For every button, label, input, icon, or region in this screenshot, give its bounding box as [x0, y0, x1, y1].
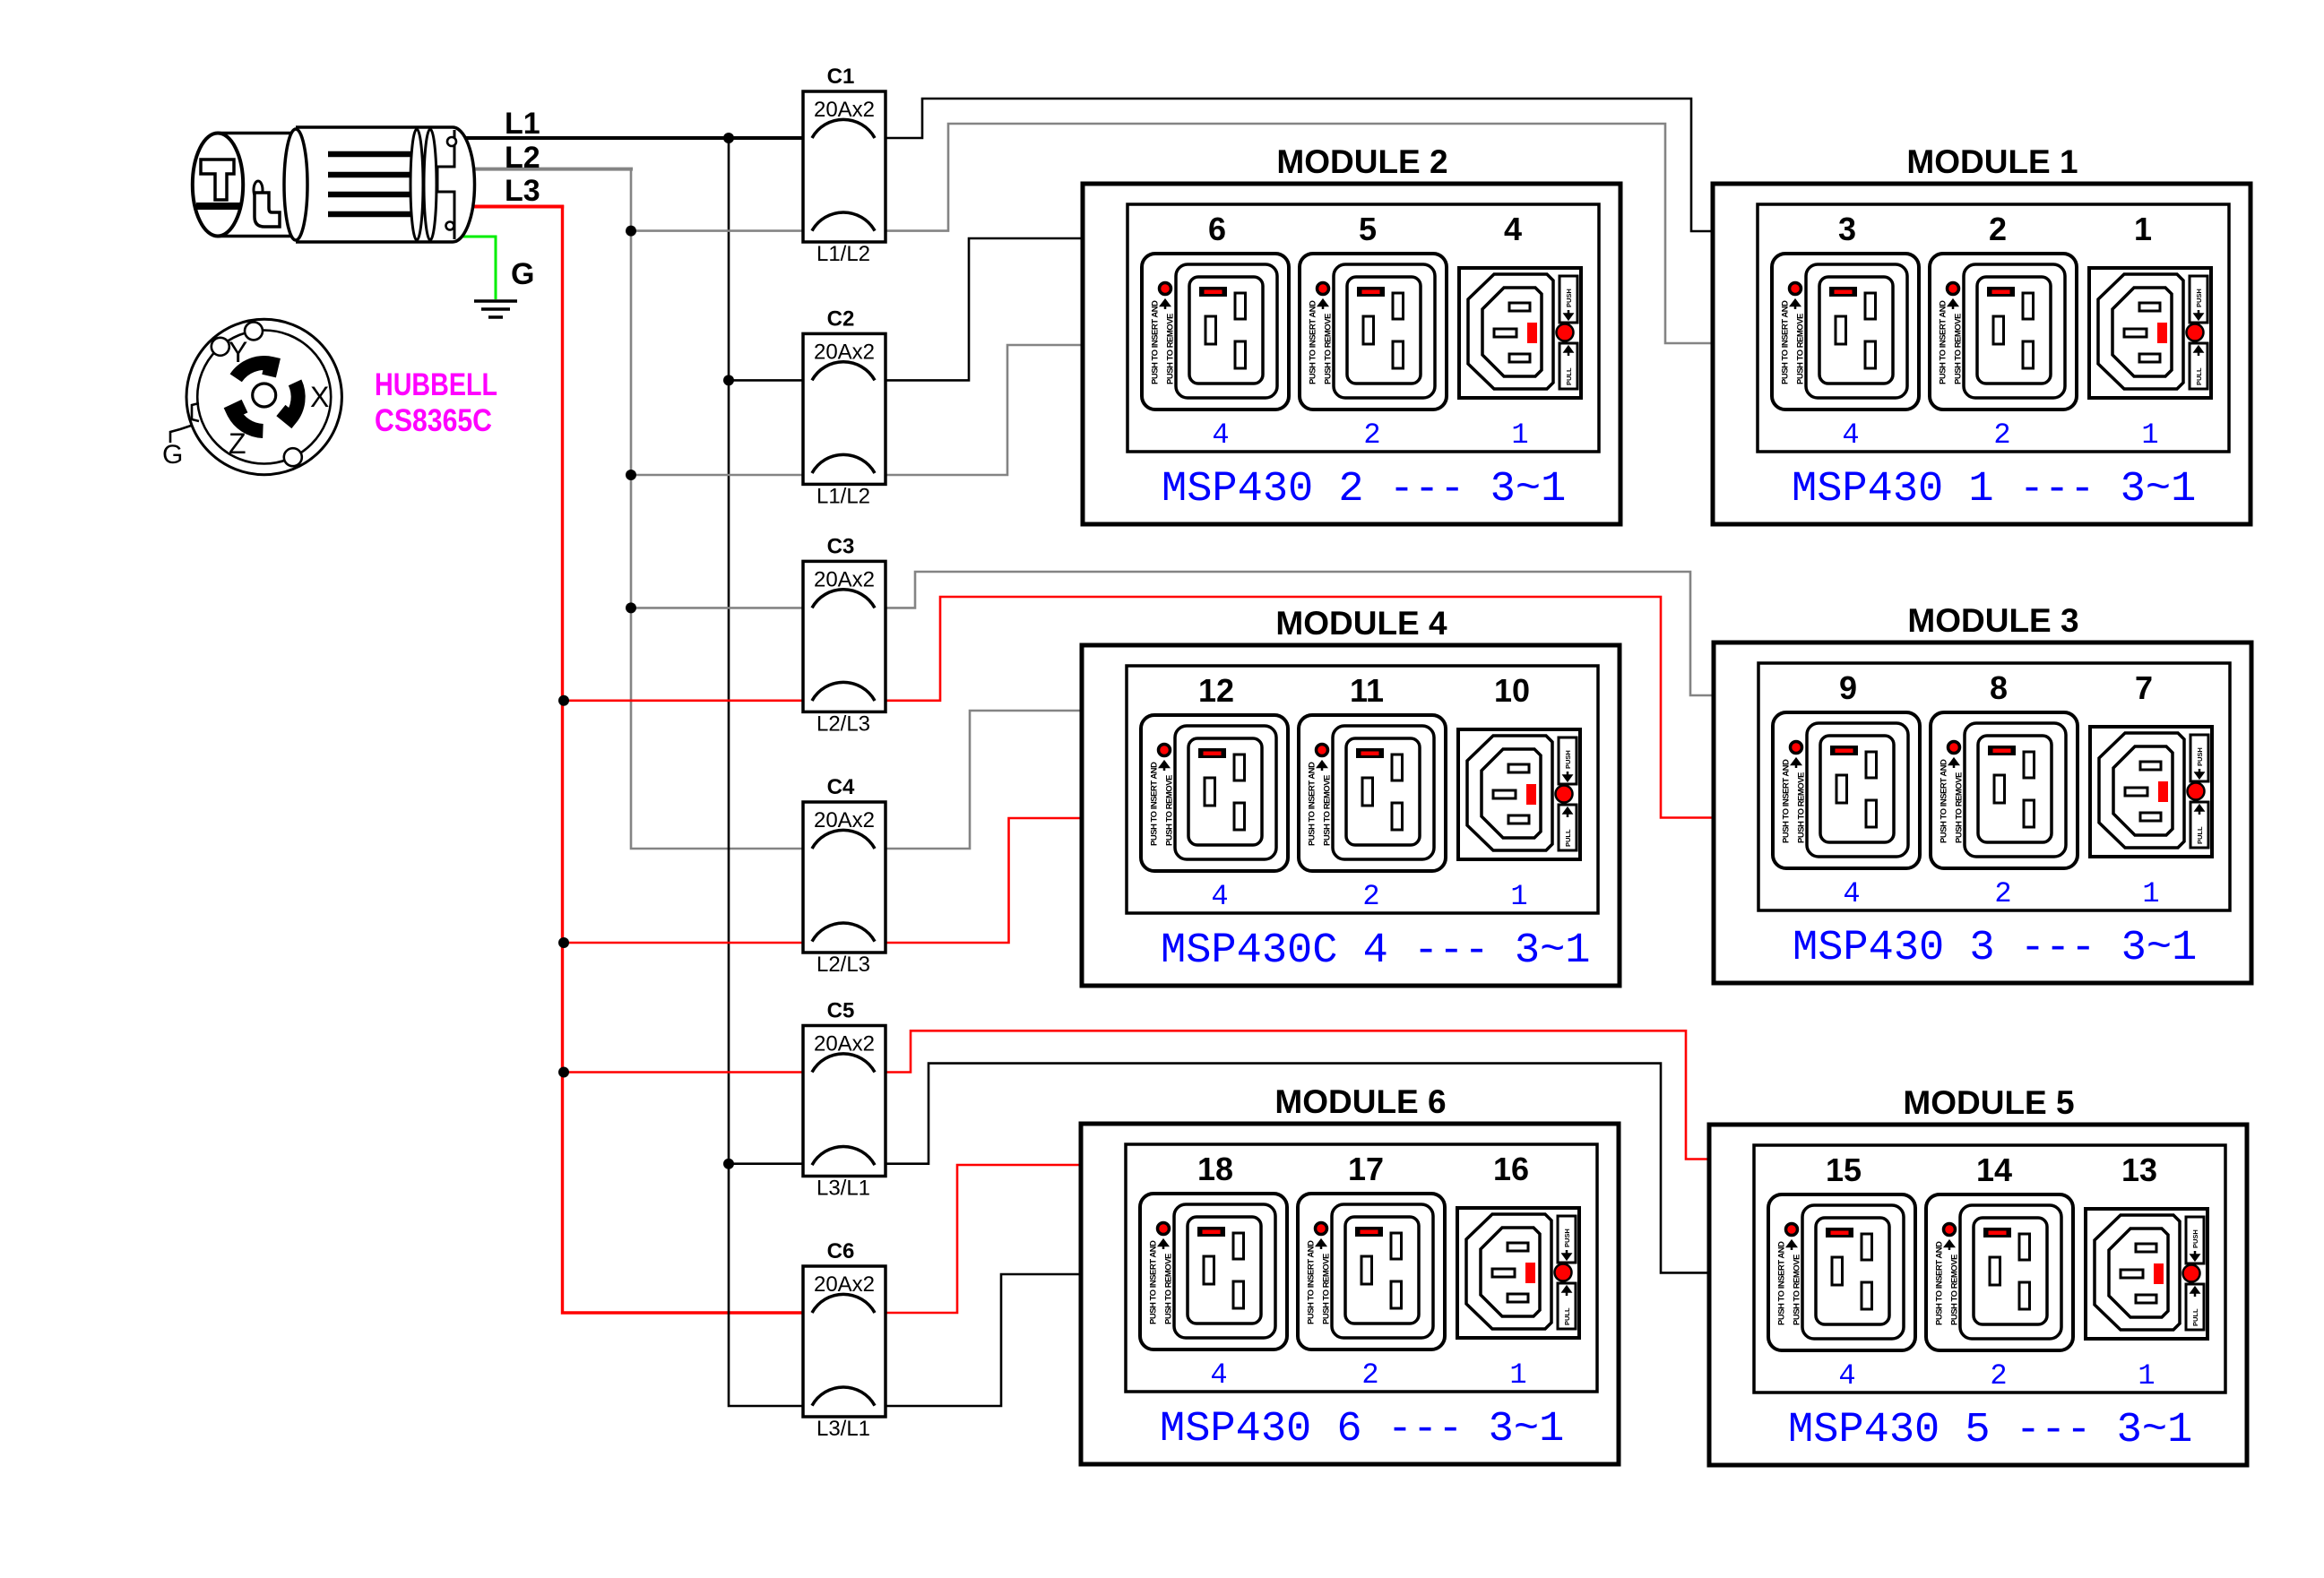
svg-text:C6: C6: [827, 1239, 855, 1263]
svg-text:C3: C3: [827, 534, 855, 558]
svg-text:MSP430 1 --- 3~1: MSP430 1 --- 3~1: [1792, 466, 2196, 513]
module M1 outlet 2 (C19): [1930, 254, 2077, 410]
wire C2 pole2 output to module 2: [875, 345, 1084, 475]
module M5 inlet 13 (C14): [2086, 1209, 2207, 1339]
wire C4 pole2 feed from L3 bus: [564, 942, 812, 944]
svg-text:MSP430 6 --- 3~1: MSP430 6 --- 3~1: [1160, 1406, 1564, 1453]
svg-text:G: G: [162, 440, 183, 470]
module M5 outlet 14 (C19): [1926, 1194, 2073, 1350]
svg-text:15: 15: [1826, 1151, 1862, 1188]
svg-text:L3/L1: L3/L1: [816, 1417, 870, 1441]
svg-text:2: 2: [1363, 418, 1380, 452]
svg-text:10: 10: [1494, 672, 1530, 709]
module M5 outlet 15 (C19): [1768, 1194, 1915, 1350]
wire L1 bus vertical + C6 pole2 feed: [729, 138, 812, 1406]
svg-text:MODULE 4: MODULE 4: [1275, 605, 1447, 642]
svg-text:G: G: [511, 257, 534, 291]
wire C6 pole2 output to module 6: [875, 1274, 1083, 1406]
svg-text:8: 8: [1990, 669, 2008, 706]
svg-text:C2: C2: [827, 306, 855, 331]
junction C1 pole2 tap: [626, 226, 636, 237]
module M3 outlet 9 (C19): [1773, 712, 1920, 868]
module M4 outlet 12 (C19): [1141, 715, 1288, 871]
svg-text:16: 16: [1493, 1151, 1529, 1187]
wire C5 pole2 feed from L1 bus: [729, 1162, 812, 1165]
svg-text:9: 9: [1839, 669, 1857, 706]
module M6 enclosure: [1081, 1124, 1619, 1464]
svg-text:MSP430 2 --- 3~1: MSP430 2 --- 3~1: [1162, 466, 1566, 513]
module M6 outlet 18 (C19): [1140, 1194, 1287, 1349]
svg-text:3: 3: [1838, 211, 1856, 247]
svg-text:2: 2: [1993, 418, 2010, 452]
wire C3 pole2 output to module 3: [875, 597, 1715, 818]
junction C4 pole2 tap: [558, 937, 569, 948]
svg-text:HUBBELL: HUBBELL: [375, 367, 497, 402]
svg-text:MSP430C 4 --- 3~1: MSP430C 4 --- 3~1: [1161, 927, 1590, 975]
svg-text:L1: L1: [505, 107, 540, 141]
svg-text:L2/L3: L2/L3: [816, 953, 870, 977]
circuit breaker C6 20Ax2: [803, 1266, 886, 1417]
circuit breaker C1 20Ax2: [803, 91, 886, 242]
module M4 enclosure: [1082, 645, 1620, 986]
wire L1 trunk (plug to C1 pole1): [462, 136, 812, 140]
wire C6 pole1 output to module 6: [875, 1165, 1083, 1313]
wire L2 bus vertical + C4 pole1 feed: [631, 168, 812, 849]
junction C5 pole2 tap: [723, 1159, 734, 1169]
wire C1 pole2 output to module 1: [875, 124, 1715, 343]
connector J1 Hubbell CS8365C plug body: [193, 127, 475, 242]
svg-text:MODULE 5: MODULE 5: [1903, 1084, 2074, 1121]
svg-text:MSP430 5 --- 3~1: MSP430 5 --- 3~1: [1788, 1407, 2192, 1454]
wire G green lead: [462, 237, 496, 299]
svg-text:Z: Z: [229, 427, 246, 460]
module M3 outlet 8 (C19): [1931, 712, 2078, 868]
svg-text:13: 13: [2121, 1151, 2157, 1188]
svg-text:12: 12: [1198, 672, 1234, 709]
svg-text:4: 4: [1843, 877, 1860, 910]
junction C3 pole2 tap: [558, 695, 569, 706]
svg-text:17: 17: [1348, 1151, 1384, 1187]
svg-text:MODULE 2: MODULE 2: [1276, 143, 1447, 180]
svg-text:14: 14: [1976, 1151, 2012, 1188]
svg-text:MODULE 6: MODULE 6: [1274, 1083, 1446, 1120]
module M2 outlet 5 (C19): [1300, 254, 1447, 410]
svg-text:1: 1: [2141, 418, 2158, 452]
wire C1 pole1 output to module 1: [875, 99, 1715, 231]
module M5 enclosure: [1709, 1125, 2247, 1465]
svg-text:1: 1: [1510, 880, 1527, 913]
svg-text:4: 4: [1842, 418, 1859, 452]
svg-text:CS8365C: CS8365C: [375, 403, 492, 438]
svg-text:C5: C5: [827, 999, 855, 1023]
svg-text:5: 5: [1359, 211, 1377, 247]
svg-text:2: 2: [1362, 880, 1379, 913]
svg-text:C1: C1: [827, 65, 855, 89]
svg-text:1: 1: [2134, 211, 2152, 247]
wire L2 trunk horizontal: [470, 168, 633, 171]
module M1 inlet 1 (C14): [2089, 268, 2211, 398]
junction L1 bus tap: [723, 133, 734, 143]
module M2 outlet 6 (C19): [1142, 254, 1289, 410]
wire C4 pole1 output to module 4: [875, 711, 1084, 849]
module M2 inlet 4 (C14): [1459, 268, 1581, 398]
svg-text:2: 2: [1989, 211, 2007, 247]
module M3 inlet 7 (C14): [2090, 727, 2212, 857]
module M1 outlet 3 (C19): [1772, 254, 1919, 410]
module M6 inlet 16 (C14): [1457, 1208, 1579, 1338]
wire C3 pole1 output to module 3: [875, 572, 1715, 695]
svg-text:4: 4: [1838, 1359, 1855, 1393]
svg-text:1: 1: [1511, 418, 1528, 452]
svg-text:1: 1: [2142, 877, 2159, 910]
svg-text:7: 7: [2135, 669, 2153, 706]
svg-text:L1/L2: L1/L2: [816, 242, 870, 266]
svg-text:Y: Y: [229, 336, 247, 368]
wire C5 pole1 feed from L3 bus: [564, 1071, 812, 1074]
wire C4 pole2 output to module 4: [875, 818, 1084, 943]
svg-text:MODULE 1: MODULE 1: [1906, 143, 2078, 180]
circuit breaker C5 20Ax2: [803, 1026, 886, 1177]
circuit breaker C4 20Ax2: [803, 802, 886, 953]
module M2 enclosure: [1083, 184, 1620, 524]
svg-text:4: 4: [1211, 880, 1228, 913]
svg-text:C4: C4: [827, 775, 855, 799]
svg-text:6: 6: [1208, 211, 1226, 247]
wire L3 trunk horizontal: [471, 205, 564, 209]
wire C1 pole2 feed from L2 bus: [631, 229, 812, 232]
svg-text:2: 2: [1990, 1359, 2007, 1393]
junction C2 pole1 tap: [723, 375, 734, 385]
ground: [474, 301, 517, 317]
svg-text:4: 4: [1210, 1358, 1227, 1392]
svg-text:L3/L1: L3/L1: [816, 1177, 870, 1201]
svg-text:4: 4: [1212, 418, 1229, 452]
module M6 outlet 17 (C19): [1298, 1194, 1445, 1349]
svg-text:11: 11: [1350, 672, 1384, 709]
svg-text:MODULE 3: MODULE 3: [1907, 602, 2078, 639]
wire C3 pole2 feed from L3 bus: [564, 699, 812, 702]
wire L3 bus vertical + C6 pole1 feed: [563, 205, 813, 1313]
circuit breaker C2 20Ax2: [803, 333, 886, 484]
svg-text:MSP430 3 --- 3~1: MSP430 3 --- 3~1: [1793, 925, 2197, 972]
circuit breaker C3 20Ax2: [803, 561, 886, 711]
module M1 enclosure: [1713, 184, 2251, 524]
svg-text:1: 1: [1509, 1358, 1526, 1392]
svg-text:18: 18: [1197, 1151, 1233, 1187]
junction C3 pole1 tap: [626, 602, 636, 613]
junction C2 pole2 tap: [626, 470, 636, 480]
wire C2 pole1 output to module 2: [875, 238, 1084, 380]
svg-text:2: 2: [1994, 877, 2011, 910]
svg-text:2: 2: [1361, 1358, 1378, 1392]
module M3 enclosure: [1714, 642, 2251, 983]
svg-text:L3: L3: [505, 174, 540, 208]
svg-text:X: X: [310, 381, 329, 413]
junction C5 pole1 tap: [558, 1067, 569, 1078]
svg-text:1: 1: [2138, 1359, 2155, 1393]
module M4 outlet 11 (C19): [1299, 715, 1446, 871]
svg-text:L1/L2: L1/L2: [816, 484, 870, 508]
wire C2 pole2 feed from L2 bus: [631, 474, 812, 477]
wire C3 pole1 feed from L2 bus: [631, 607, 812, 609]
module M4 inlet 10 (C14): [1458, 729, 1580, 859]
svg-text:4: 4: [1504, 211, 1522, 247]
connector face diagram (CS8365C pin layout): [170, 319, 341, 474]
svg-text:L2: L2: [505, 141, 540, 175]
wire C5 pole1 output to module 5: [875, 1030, 1711, 1159]
wire C2 pole1 feed from L1 bus: [729, 379, 812, 382]
wire C5 pole2 output to module 5: [875, 1064, 1711, 1273]
svg-text:L2/L3: L2/L3: [816, 711, 870, 736]
